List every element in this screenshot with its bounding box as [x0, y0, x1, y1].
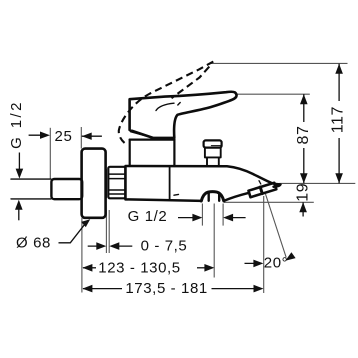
svg-text:Ø 68: Ø 68	[16, 235, 51, 252]
svg-text:173,5 - 181: 173,5 - 181	[125, 280, 208, 297]
svg-text:19: 19	[295, 183, 312, 202]
svg-text:123 - 130,5: 123 - 130,5	[98, 259, 181, 276]
svg-text:25: 25	[55, 128, 73, 145]
svg-text:G 1/2: G 1/2	[128, 208, 168, 225]
svg-text:117: 117	[330, 106, 347, 133]
svg-text:0 - 7,5: 0 - 7,5	[141, 238, 188, 255]
svg-text:20°: 20°	[264, 255, 288, 272]
svg-text:87: 87	[295, 126, 312, 145]
svg-text:G 1/2: G 1/2	[8, 100, 25, 149]
